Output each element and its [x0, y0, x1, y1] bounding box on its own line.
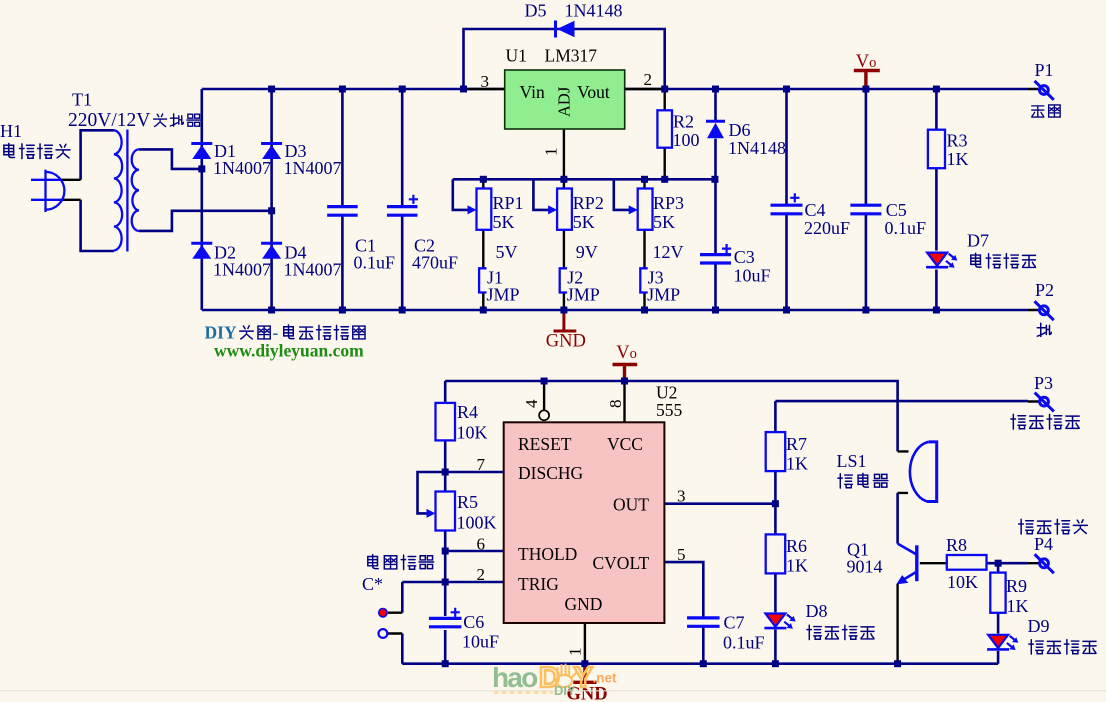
svg-text:GND: GND: [546, 332, 586, 352]
svg-text:P3: P3: [1034, 373, 1053, 393]
svg-text:D7: D7: [967, 231, 989, 251]
svg-text:1: 1: [542, 148, 561, 157]
svg-text:0.1uF: 0.1uF: [885, 218, 927, 238]
svg-text:5V: 5V: [496, 242, 518, 262]
svg-text:TRIG: TRIG: [518, 574, 559, 594]
svg-text:1K: 1K: [786, 454, 808, 474]
svg-text:Vo: Vo: [616, 343, 637, 363]
svg-text:5K: 5K: [493, 212, 515, 232]
svg-text:3: 3: [481, 72, 490, 91]
svg-text:Y: Y: [574, 662, 593, 694]
svg-text:10K: 10K: [947, 572, 978, 592]
svg-text:RP3: RP3: [653, 193, 684, 213]
svg-text:5K: 5K: [573, 212, 595, 232]
svg-text:JMP: JMP: [647, 285, 680, 305]
svg-text:R7: R7: [786, 434, 807, 454]
svg-text:470uF: 470uF: [412, 253, 458, 273]
svg-text:JMP: JMP: [567, 285, 600, 305]
svg-text:LM317: LM317: [545, 46, 598, 66]
svg-text:Vout: Vout: [577, 82, 610, 102]
svg-text:hao: hao: [492, 662, 538, 693]
svg-text:R4: R4: [457, 402, 478, 422]
svg-text:RESET: RESET: [518, 434, 572, 454]
svg-text:9014: 9014: [847, 557, 883, 577]
svg-text:U1: U1: [506, 46, 527, 66]
svg-text:10K: 10K: [457, 423, 488, 443]
svg-text:D5: D5: [525, 1, 547, 21]
svg-text:220uF: 220uF: [804, 218, 850, 238]
svg-text:T1: T1: [72, 90, 92, 110]
svg-text:R6: R6: [786, 536, 807, 556]
svg-text:CVOLT: CVOLT: [593, 553, 650, 573]
svg-text:555: 555: [656, 400, 683, 420]
svg-text:LS1: LS1: [837, 451, 867, 471]
svg-text:Vin: Vin: [520, 82, 545, 102]
svg-text:R9: R9: [1006, 576, 1027, 596]
svg-text:3: 3: [677, 487, 686, 506]
svg-text:100K: 100K: [457, 513, 497, 533]
svg-text:DIY: DIY: [205, 323, 237, 343]
svg-text:C*: C*: [362, 574, 383, 594]
svg-text:D9: D9: [1028, 616, 1050, 636]
svg-text:1K: 1K: [786, 556, 808, 576]
svg-text:4: 4: [522, 399, 541, 408]
svg-text:C7: C7: [724, 613, 745, 633]
svg-text:OUT: OUT: [613, 495, 649, 515]
svg-text:R5: R5: [457, 492, 478, 512]
svg-text:R2: R2: [673, 112, 694, 132]
svg-text:7: 7: [477, 455, 486, 474]
svg-text:JMP: JMP: [487, 285, 520, 305]
svg-text:1N4007: 1N4007: [284, 158, 342, 178]
svg-text:P1: P1: [1035, 60, 1054, 80]
svg-text:1N4148: 1N4148: [728, 138, 786, 158]
svg-text:2: 2: [644, 70, 653, 89]
svg-text:R3: R3: [947, 131, 968, 151]
svg-text:9V: 9V: [576, 242, 598, 262]
svg-text:1K: 1K: [1007, 596, 1029, 616]
svg-text:GND: GND: [565, 594, 603, 614]
svg-text:C4: C4: [805, 200, 826, 220]
svg-text:1K: 1K: [947, 149, 969, 169]
svg-text:.net: .net: [593, 671, 618, 686]
svg-text:2: 2: [477, 565, 486, 584]
svg-text:0.1uF: 0.1uF: [354, 253, 396, 273]
svg-text:VCC: VCC: [607, 434, 643, 454]
svg-text:220V/12V: 220V/12V: [68, 110, 150, 131]
svg-text:100: 100: [673, 130, 700, 150]
svg-text:D8: D8: [806, 601, 828, 621]
svg-text:0.1uF: 0.1uF: [723, 633, 765, 653]
svg-text:12V: 12V: [653, 242, 684, 262]
svg-text:8: 8: [606, 400, 625, 409]
svg-text:1N4007: 1N4007: [284, 260, 342, 280]
svg-text:H1: H1: [0, 121, 22, 141]
svg-text:1: 1: [566, 648, 585, 657]
svg-text:P2: P2: [1035, 280, 1054, 300]
svg-text:ADJ: ADJ: [555, 86, 574, 117]
svg-text:RP1: RP1: [493, 193, 524, 213]
svg-text:DIY: DIY: [554, 683, 576, 698]
svg-text:-: -: [273, 323, 279, 343]
svg-text:1N4007: 1N4007: [213, 158, 271, 178]
svg-text:1N4007: 1N4007: [213, 260, 271, 280]
svg-text:10uF: 10uF: [462, 632, 499, 652]
svg-text:5K: 5K: [653, 212, 675, 232]
svg-text:DISCHG: DISCHG: [518, 463, 584, 483]
svg-text:R8: R8: [946, 535, 967, 555]
svg-text:RP2: RP2: [573, 193, 604, 213]
svg-text:10uF: 10uF: [734, 266, 771, 286]
svg-text:C6: C6: [463, 612, 484, 632]
svg-text:www.diyleyuan.com: www.diyleyuan.com: [214, 341, 364, 361]
svg-text:P4: P4: [1034, 534, 1053, 554]
svg-text:C5: C5: [886, 200, 907, 220]
svg-text:Vo: Vo: [856, 52, 877, 72]
svg-text:C3: C3: [734, 247, 755, 267]
svg-text:D6: D6: [729, 120, 751, 140]
svg-text:6: 6: [477, 535, 486, 554]
svg-text:5: 5: [677, 545, 686, 564]
svg-text:THOLD: THOLD: [518, 544, 577, 564]
svg-text:1N4148: 1N4148: [565, 1, 623, 21]
